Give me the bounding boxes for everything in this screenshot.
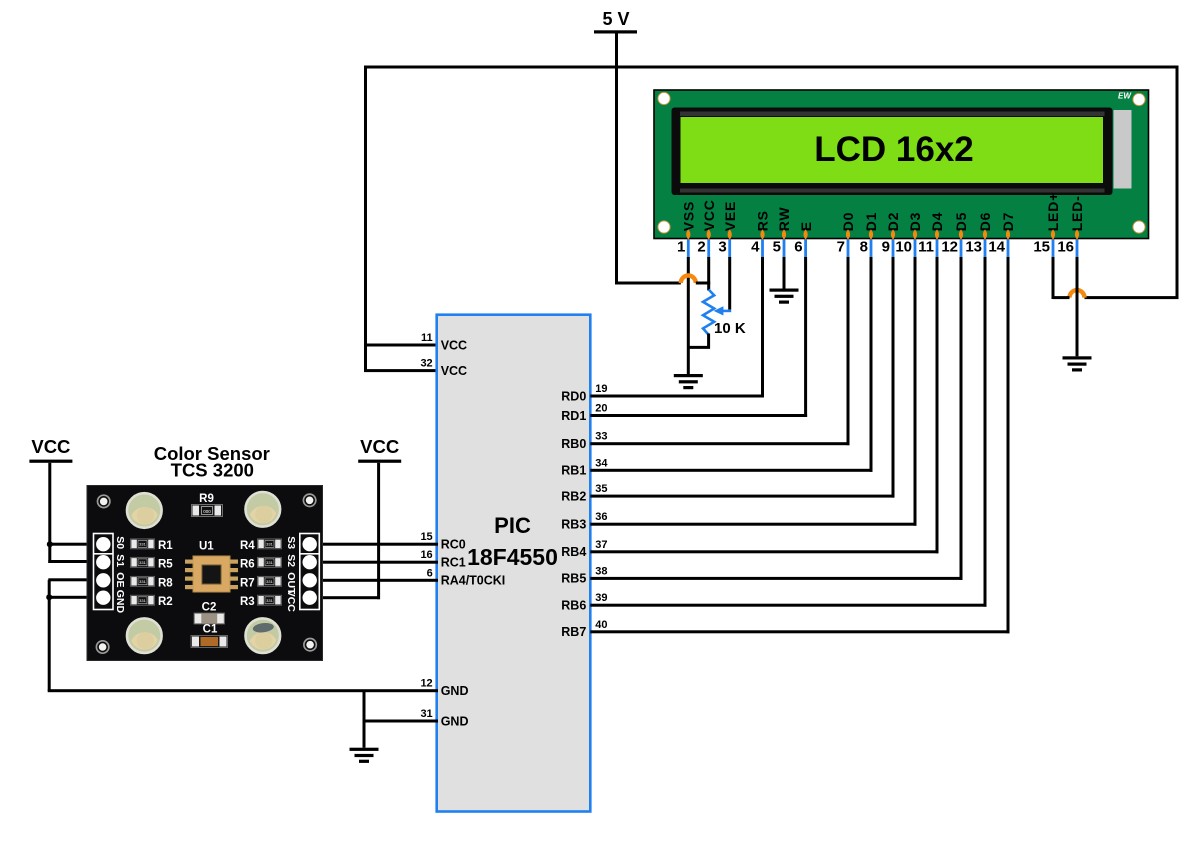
PIC 18F4550 microcontroller body U1 <box>437 315 591 812</box>
wire PIC pin 20 to LCD column <box>590 414 807 417</box>
svg-text:VCC: VCC <box>441 364 467 378</box>
LCD mounting hole top-right <box>1133 93 1145 105</box>
svg-text:RB7: RB7 <box>561 625 586 639</box>
sensor left pad header divider <box>94 553 114 555</box>
wire sensor S3 to PIC RC0 (15) <box>310 543 438 546</box>
svg-text:6: 6 <box>794 239 802 256</box>
wire LCD pin 14 stub <box>1007 240 1010 259</box>
wire LCD column x=848 up to pin row <box>847 257 850 445</box>
LCD pad pin 14 <box>1006 229 1010 239</box>
wire PIC pin 38 to LCD column <box>590 577 962 580</box>
svg-text:18F4550: 18F4550 <box>467 544 558 570</box>
svg-text:D5: D5 <box>953 212 969 232</box>
svg-text:R8: R8 <box>158 577 173 589</box>
wire LCD pin 11 stub <box>936 240 939 259</box>
svg-text:U1: U1 <box>199 541 214 553</box>
svg-text:32: 32 <box>420 358 432 370</box>
svg-text:9: 9 <box>882 239 890 256</box>
svg-text:GND: GND <box>441 714 469 728</box>
svg-text:RB4: RB4 <box>561 545 586 559</box>
svg-text:12: 12 <box>420 678 432 690</box>
ground under LED- <box>1063 356 1092 371</box>
LCD bezel bottom highlight <box>680 189 1105 193</box>
svg-text:D4: D4 <box>929 212 945 232</box>
wire LCD pin 9 stub <box>892 240 895 259</box>
svg-text:PIC: PIC <box>494 513 531 538</box>
svg-text:19: 19 <box>595 383 607 395</box>
LCD pad pin 4 <box>760 229 764 239</box>
svg-text:331: 331 <box>266 598 273 603</box>
LCD mounting hole bottom-left <box>658 221 670 233</box>
svg-text:16: 16 <box>1057 239 1074 256</box>
svg-text:RW: RW <box>776 207 792 232</box>
svg-text:VCC: VCC <box>360 436 399 457</box>
wire LCD pin 4 stub <box>761 240 764 259</box>
svg-text:VCC: VCC <box>31 436 70 457</box>
sensor chip U1 body <box>185 556 238 592</box>
wire LCD column x=985 up to pin row <box>984 257 987 607</box>
wire PIC pin 39 to LCD column <box>590 604 986 607</box>
svg-text:38: 38 <box>595 565 607 577</box>
LCD pad pin 5 <box>782 229 786 239</box>
svg-text:14: 14 <box>988 239 1005 256</box>
junction VCC-S0 <box>47 541 53 547</box>
wire sensor S2 to PIC RC1 (16) <box>310 561 438 564</box>
ground under VSS <box>674 374 703 389</box>
wire LED+ return segment right of hop <box>1085 296 1179 299</box>
wire LCD column x=871 up to pin row <box>870 257 873 472</box>
wire PIC pin11 VCC <box>366 344 439 347</box>
svg-text:6: 6 <box>427 567 433 579</box>
sensor mounting hole top-right <box>303 494 315 506</box>
sensor left pad header outline <box>94 534 114 610</box>
sensor pad S0 <box>96 537 110 551</box>
wire LED+ return segment left of hop <box>1053 296 1070 299</box>
wire LCD pin 6 stub <box>804 240 807 259</box>
svg-text:16: 16 <box>420 549 432 561</box>
svg-text:33: 33 <box>595 431 607 443</box>
svg-text:LED-: LED- <box>1069 195 1085 231</box>
svg-text:VCC: VCC <box>441 338 467 352</box>
svg-text:331: 331 <box>266 579 273 584</box>
svg-text:D2: D2 <box>885 212 901 232</box>
sensor resistor R7 body <box>258 576 282 586</box>
sensor white LED top-right <box>245 492 280 527</box>
svg-text:D0: D0 <box>840 212 856 232</box>
svg-text:S3: S3 <box>285 536 297 549</box>
svg-text:8: 8 <box>860 239 868 256</box>
wire ground branch vertical <box>363 691 366 748</box>
wire LCD pin 8 stub <box>870 240 873 259</box>
LCD pad pin 16 <box>1075 229 1079 239</box>
svg-text:RB1: RB1 <box>561 464 586 478</box>
wire LCD pin 5 stub <box>783 240 786 259</box>
sensor white LED top-left <box>127 493 162 528</box>
svg-text:RD0: RD0 <box>561 389 586 403</box>
svg-text:RD1: RD1 <box>561 409 586 423</box>
LCD mounting hole top-left <box>658 92 670 104</box>
wire LCD pin 1 stub <box>687 240 690 259</box>
svg-text:D6: D6 <box>977 212 993 232</box>
wire sensor OUT to PIC RA4 (6) <box>310 579 438 582</box>
svg-text:R4: R4 <box>240 540 255 552</box>
sensor right pad header divider <box>300 553 320 555</box>
svg-text:R6: R6 <box>240 558 255 570</box>
svg-text:D3: D3 <box>907 212 923 232</box>
wire LCD column x=937 up to pin row <box>936 257 939 553</box>
svg-text:RB3: RB3 <box>561 518 586 532</box>
wire LCD column x=1008 up to pin row <box>1007 257 1010 633</box>
wire VCC left to S1 pad <box>48 560 100 563</box>
wire LCD pin 10 stub <box>914 240 917 259</box>
wire PIC pin 37 to LCD column <box>590 550 938 553</box>
wire VCC pin2 down to pot top <box>707 257 710 291</box>
sensor resistor R9 body <box>192 505 223 517</box>
wire PIC pin 33 to LCD column <box>590 442 849 445</box>
wire LCD pin 12 stub <box>960 240 963 259</box>
svg-text:7: 7 <box>837 239 845 256</box>
sensor capacitor C1 body <box>191 636 228 648</box>
wire LCD pin 7 stub <box>847 240 850 259</box>
svg-text:RB2: RB2 <box>561 489 586 503</box>
svg-text:VCC: VCC <box>285 590 297 613</box>
svg-text:R3: R3 <box>240 596 255 608</box>
svg-text:VSS: VSS <box>681 201 697 231</box>
sensor resistor R2 body <box>131 595 155 605</box>
wire LCD column x=961 up to pin row <box>960 257 963 580</box>
svg-text:20: 20 <box>595 403 607 415</box>
svg-text:31: 31 <box>420 708 432 720</box>
svg-text:RB0: RB0 <box>561 437 586 451</box>
sensor white LED bottom-right <box>245 618 280 653</box>
TCS3200 sensor board <box>87 486 323 661</box>
wire 5V feed to pin2: segment left of hop <box>615 282 681 285</box>
wire LCD pin 2 stub <box>707 240 710 259</box>
svg-text:C2: C2 <box>202 602 217 614</box>
svg-text:5: 5 <box>773 239 781 256</box>
LCD display bezel <box>672 108 1113 196</box>
sensor mounting hole bottom-right <box>304 639 316 651</box>
wire PIC pin 36 to LCD column <box>590 523 916 526</box>
sensor pad VCC <box>303 591 317 605</box>
wire VSS pin1 down to ground <box>687 257 690 374</box>
svg-text:331: 331 <box>139 579 146 584</box>
svg-text:S2: S2 <box>285 554 297 567</box>
LCD pad pin 1 <box>686 229 690 239</box>
wire VCC right stem <box>377 463 380 599</box>
wire VEE pin3 down to wiper <box>728 257 731 310</box>
LCD 16x2 module board <box>654 90 1149 239</box>
wire 5V top rail horizontal <box>364 66 1179 69</box>
sensor resistor R6 body <box>258 557 282 567</box>
wire 5V feed to pin2: segment right of hop <box>696 282 710 285</box>
svg-text:10 K: 10 K <box>714 320 746 337</box>
wire E pin6 down to RD1 row <box>804 257 807 417</box>
LCD pad pin 12 <box>959 229 963 239</box>
svg-text:R2: R2 <box>158 596 173 608</box>
sensor capacitor C2 body <box>194 613 225 624</box>
wire LED- pin16 down to ground <box>1076 257 1079 356</box>
svg-text:39: 39 <box>595 592 607 604</box>
svg-text:VEE: VEE <box>722 201 738 231</box>
LCD pad pin 8 <box>869 229 873 239</box>
svg-text:35: 35 <box>595 483 607 495</box>
LCD pad pin 3 <box>728 229 732 239</box>
LCD pad pin 10 <box>913 229 917 239</box>
svg-text:GND: GND <box>441 684 469 698</box>
svg-text:11: 11 <box>421 332 433 344</box>
svg-text:10: 10 <box>895 239 912 256</box>
svg-text:GND: GND <box>114 590 126 614</box>
svg-text:37: 37 <box>595 539 607 551</box>
power symbol 5V bar <box>594 30 637 33</box>
wire gnd drop vertical <box>48 580 51 691</box>
svg-text:D1: D1 <box>863 212 879 232</box>
sensor pad OUT <box>303 573 317 587</box>
sensor pad GND <box>96 591 110 605</box>
sensor mounting hole bottom-left <box>96 641 108 653</box>
LCD bezel top highlight <box>680 112 1105 117</box>
sensor resistor R5 body <box>131 557 155 567</box>
wire LCD column x=915 up to pin row <box>914 257 917 526</box>
svg-text:R7: R7 <box>240 577 255 589</box>
wire PIC pin 34 to LCD column <box>590 469 872 472</box>
svg-text:RC0: RC0 <box>441 538 466 552</box>
potentiometer 10K body (zigzag) <box>703 290 714 335</box>
svg-text:12: 12 <box>941 239 958 256</box>
wire hop over LED- wire <box>1070 290 1085 297</box>
wire LED+ pin15 down <box>1052 257 1055 299</box>
LCD connector strip <box>1114 110 1132 189</box>
svg-text:RA4/T0CKI: RA4/T0CKI <box>441 574 506 588</box>
svg-text:13: 13 <box>965 239 982 256</box>
svg-text:S0: S0 <box>114 536 126 549</box>
svg-text:R9: R9 <box>199 493 214 505</box>
wire hop over VSS wire <box>681 276 696 284</box>
svg-text:RS: RS <box>755 210 771 231</box>
svg-text:1: 1 <box>677 239 685 256</box>
svg-text:OE: OE <box>114 572 126 587</box>
svg-text:RB5: RB5 <box>561 572 586 586</box>
svg-text:3: 3 <box>718 239 726 256</box>
ground main <box>350 748 379 763</box>
ground under RW <box>770 289 799 304</box>
LCD pad pin 13 <box>983 229 987 239</box>
wire RW pin5 down to ground <box>783 257 786 289</box>
wire right drop along right edge <box>1176 66 1179 300</box>
svg-text:40: 40 <box>595 619 607 631</box>
wire sensor VCC pad to VCC stem <box>310 596 380 599</box>
svg-text:331: 331 <box>139 542 146 547</box>
sensor pad S2 <box>303 555 317 569</box>
wire pot bottom lead <box>687 334 709 348</box>
LCD pad pin 7 <box>846 229 850 239</box>
sensor mounting hole top-left <box>98 495 110 507</box>
wire GND pad to gnd drop <box>49 596 100 599</box>
wire PIC pin 19 to LCD column <box>590 395 764 398</box>
sensor resistor R1 body <box>131 539 155 549</box>
svg-text:331: 331 <box>139 598 146 603</box>
LCD mounting hole bottom-right <box>1133 221 1145 233</box>
svg-text:RB6: RB6 <box>561 599 586 613</box>
sensor right pad header outline <box>300 534 320 610</box>
svg-text:34: 34 <box>595 457 608 469</box>
svg-text:LED+: LED+ <box>1045 192 1061 231</box>
LCD pad pin 2 <box>707 229 711 239</box>
svg-text:C1: C1 <box>203 624 218 636</box>
power symbol VCC right <box>358 436 401 463</box>
svg-text:5 V: 5 V <box>602 9 629 29</box>
wire LCD pin 3 stub <box>728 240 731 259</box>
sensor white LED bottom-left <box>127 618 162 653</box>
sensor resistor R3 body <box>258 595 282 605</box>
wire branch to PIC GND (31) <box>364 720 438 723</box>
svg-text:LCD 16x2: LCD 16x2 <box>814 130 974 169</box>
svg-text:331: 331 <box>139 560 146 565</box>
svg-text:15: 15 <box>1033 239 1050 256</box>
LCD pad pin 11 <box>935 229 939 239</box>
svg-text:331: 331 <box>266 542 273 547</box>
wire VCC left stem <box>48 463 51 563</box>
wire LCD pin 15 stub <box>1052 240 1055 259</box>
svg-text:S1: S1 <box>114 554 126 567</box>
svg-text:000: 000 <box>203 509 211 514</box>
potentiometer wiper arrow <box>722 310 731 313</box>
wire LCD column x=893 up to pin row <box>892 257 895 498</box>
svg-text:TCS 3200: TCS 3200 <box>171 460 254 481</box>
svg-text:36: 36 <box>595 511 607 523</box>
svg-text:11: 11 <box>918 239 934 256</box>
wire VCC left to S0 pad <box>50 543 100 546</box>
wire OE pad to gnd drop <box>48 578 100 581</box>
LCD screen <box>681 117 1104 183</box>
sensor resistor R8 body <box>131 576 155 586</box>
wire ground bus to PIC GND (12) <box>48 689 438 692</box>
wire PIC pin 35 to LCD column <box>590 495 894 498</box>
svg-text:R5: R5 <box>158 558 173 570</box>
svg-text:R1: R1 <box>158 540 173 552</box>
svg-text:331: 331 <box>266 560 273 565</box>
sensor resistor R4 body <box>258 539 282 549</box>
LCD pad pin 9 <box>891 229 895 239</box>
wire LCD pin 13 stub <box>984 240 987 259</box>
svg-text:EW: EW <box>1118 92 1132 101</box>
sensor pad S3 <box>303 537 317 551</box>
wire PIC pin 40 to LCD column <box>590 630 1009 633</box>
svg-text:2: 2 <box>697 239 705 256</box>
sensor LED bottom-right dark reflection <box>252 622 274 634</box>
junction GND pad <box>46 594 52 600</box>
power symbol VCC left <box>29 436 72 463</box>
LCD pad pin 6 <box>803 229 807 239</box>
sensor pad OE <box>96 573 110 587</box>
wire left drop to PIC VCC pins <box>364 66 367 373</box>
svg-text:RC1: RC1 <box>441 556 466 570</box>
svg-text:15: 15 <box>420 531 432 543</box>
wire PIC pin32 VCC <box>364 369 438 372</box>
LCD pad pin 15 <box>1051 229 1055 239</box>
sensor pad S1 <box>96 555 110 569</box>
svg-text:VCC: VCC <box>701 199 717 231</box>
svg-text:4: 4 <box>751 239 760 256</box>
wire 5V stem down to LCD VCC row <box>615 32 618 285</box>
wire RS pin4 down to RD0 row <box>761 257 764 398</box>
wire LCD pin 16 stub <box>1076 240 1079 259</box>
svg-text:D7: D7 <box>1000 212 1016 232</box>
